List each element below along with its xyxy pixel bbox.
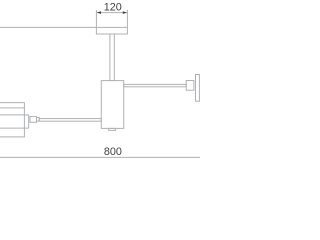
svg-text:120: 120: [104, 1, 122, 13]
svg-text:800: 800: [104, 146, 122, 158]
